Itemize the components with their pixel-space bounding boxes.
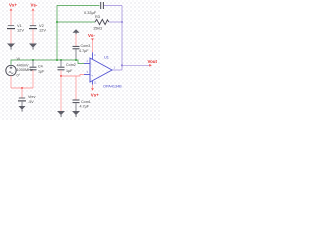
op-amp U1 triangle bbox=[90, 58, 112, 82]
node Vs+ at op-amp bottom arrow bbox=[91, 88, 94, 91]
junction feedback bbox=[56, 59, 58, 61]
node Vs+ terminal arrow bbox=[10, 8, 13, 10]
svg-text:R3: R3 bbox=[95, 14, 100, 19]
capacitor C4 lead bbox=[32, 60, 34, 67]
battery Vrev bbox=[18, 98, 26, 101]
capacitor Com2 bbox=[58, 67, 65, 70]
svg-text:4.7µF: 4.7µF bbox=[79, 49, 89, 53]
svg-text:Vs-: Vs- bbox=[31, 3, 38, 8]
svg-text:12V: 12V bbox=[17, 28, 24, 33]
wire V2 bottom bbox=[32, 29, 34, 43]
svg-text:2: 2 bbox=[87, 59, 89, 63]
svg-text:1µF: 1µF bbox=[38, 70, 45, 74]
svg-text:1: 1 bbox=[114, 66, 116, 70]
wire R3 right purple bbox=[109, 21, 122, 23]
junction non-inverting node bbox=[60, 75, 62, 77]
node Vout terminal arrow bbox=[149, 64, 152, 67]
wire cap right purple bbox=[104, 5, 122, 7]
capacitor C4 bbox=[30, 67, 37, 70]
svg-text:0°: 0° bbox=[17, 73, 21, 77]
svg-text:15kΩ: 15kΩ bbox=[93, 25, 102, 30]
capacitor Com1 bbox=[73, 100, 80, 103]
svg-text:-: - bbox=[91, 62, 92, 66]
op-amp non-inverting input stub bbox=[84, 74, 90, 76]
svg-text:Com2: Com2 bbox=[66, 63, 76, 67]
svg-text:-5V: -5V bbox=[28, 100, 34, 104]
power arrow above Com3 bbox=[73, 29, 80, 34]
op-amp inverting input stub bbox=[84, 63, 90, 65]
junction on feedback line bbox=[56, 21, 58, 23]
wire input line green bbox=[11, 60, 84, 65]
svg-text:Vrev: Vrev bbox=[28, 95, 36, 99]
node Vs- terminal arrow bbox=[91, 38, 94, 40]
wire op-amp top supply red bbox=[92, 40, 94, 52]
wire Com1 top red bbox=[75, 76, 77, 100]
wire feedback vertical green bbox=[57, 6, 100, 61]
wire op-amp bottom supply red bbox=[92, 85, 94, 89]
svg-text:3: 3 bbox=[87, 70, 89, 74]
ground under V2 bbox=[29, 44, 37, 50]
svg-text:Vi: Vi bbox=[17, 57, 20, 61]
svg-text:12V: 12V bbox=[39, 28, 46, 33]
wire Vi bottom red bbox=[10, 76, 12, 88]
junction at C4 bbox=[32, 59, 34, 61]
svg-text:+: + bbox=[91, 73, 93, 77]
junction R3/output bbox=[121, 21, 123, 23]
junction Vrev bbox=[21, 87, 23, 89]
svg-text:Vs+: Vs+ bbox=[91, 92, 99, 97]
capacitor Com2 lead bbox=[60, 60, 62, 67]
wire Vrev bottom bbox=[21, 102, 23, 106]
wire Com1 bottom bbox=[75, 103, 77, 111]
ground under Vrev bbox=[19, 106, 26, 112]
svg-text:Com1: Com1 bbox=[81, 100, 91, 104]
wire V2 top bbox=[32, 10, 34, 25]
battery V2 bbox=[29, 26, 37, 29]
node Vs- terminal arrow bbox=[32, 8, 35, 10]
junction at Com3 bbox=[75, 59, 77, 61]
svg-text:11: 11 bbox=[94, 81, 97, 85]
svg-text:Vs+: Vs+ bbox=[9, 3, 17, 8]
ground under V1 bbox=[7, 44, 15, 50]
source Vi circle bbox=[6, 65, 16, 75]
svg-text:C4: C4 bbox=[38, 65, 43, 69]
svg-text:U1: U1 bbox=[104, 54, 109, 59]
svg-text:Com3: Com3 bbox=[81, 44, 91, 48]
wire V1 top bbox=[10, 10, 12, 25]
wire Com3 top red bbox=[75, 34, 77, 46]
wire C4 bottom red bbox=[32, 70, 34, 88]
wire bottom rail red bbox=[11, 87, 33, 89]
svg-text:Vout: Vout bbox=[148, 59, 158, 64]
wire down to ground red bbox=[60, 76, 62, 111]
wire to Vout purple bbox=[122, 64, 150, 66]
op-amp top power stub bbox=[92, 52, 94, 59]
resistor R3 bbox=[95, 19, 109, 24]
ground under input node bbox=[57, 111, 65, 117]
op-amp bottom power stub bbox=[92, 81, 94, 85]
wire op-amp output stub purple bbox=[111, 69, 122, 71]
source Vi plus sign bbox=[10, 67, 13, 70]
battery V1 bbox=[7, 26, 15, 29]
svg-text:4: 4 bbox=[94, 53, 96, 57]
ground under Com1 bbox=[72, 111, 80, 117]
wire R3 left green bbox=[57, 21, 95, 23]
svg-text:4.7µF: 4.7µF bbox=[80, 105, 90, 109]
junction at Com2 bbox=[60, 59, 62, 61]
wire V1 bottom bbox=[10, 29, 12, 43]
wire to non-inverting input red bbox=[61, 75, 84, 77]
capacitor C3 0.33uF bbox=[101, 2, 104, 9]
source Vi sine bbox=[9, 72, 13, 74]
svg-text:1µF: 1µF bbox=[66, 69, 73, 73]
wire Com3 bottom bbox=[75, 49, 77, 60]
svg-text:Vs-: Vs- bbox=[88, 33, 95, 38]
svg-text:OPA4134B: OPA4134B bbox=[103, 84, 122, 88]
wire Vrev top red bbox=[21, 88, 23, 98]
svg-text:440mV: 440mV bbox=[17, 63, 29, 67]
wire Com2 bottom red bbox=[60, 70, 62, 76]
junction output node bbox=[121, 64, 123, 66]
wire output net vertical purple bbox=[121, 6, 123, 71]
capacitor Com3 bbox=[73, 46, 80, 48]
